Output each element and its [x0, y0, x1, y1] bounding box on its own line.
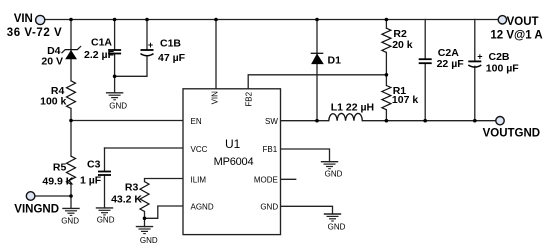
node R3 ground — [143, 217, 147, 221]
IC U1 MP6004 — [183, 89, 281, 235]
svg-text:20 k: 20 k — [392, 39, 413, 51]
svg-text:100 µF: 100 µF — [486, 62, 519, 74]
resistor R1 — [382, 85, 418, 110]
svg-text:R3: R3 — [125, 181, 139, 193]
wire VCC pin to C3 — [105, 147, 184, 149]
capacitor C3 — [80, 159, 111, 187]
svg-text:GND: GND — [97, 216, 115, 225]
wire top rail VIN to VOUT — [45, 19, 499, 21]
wire VINGND terminal to node — [35, 195, 71, 197]
node C2A bottom — [423, 119, 427, 123]
svg-text:EN: EN — [191, 117, 202, 126]
svg-text:36 V-72 V: 36 V-72 V — [7, 27, 62, 39]
node VINGND junction — [69, 194, 73, 198]
node C1A bottom — [113, 75, 117, 79]
terminal VOUTGND — [496, 117, 504, 125]
svg-text:+: + — [477, 52, 482, 62]
svg-text:GND: GND — [140, 236, 158, 245]
node VIN pin rail — [214, 18, 218, 22]
svg-text:+: + — [148, 40, 153, 50]
wire C1A top — [114, 20, 116, 51]
svg-text:MP6004: MP6004 — [214, 156, 254, 168]
svg-text:20 V: 20 V — [41, 56, 63, 68]
node C1B rail — [145, 18, 149, 22]
svg-text:C1B: C1B — [160, 37, 181, 49]
wire AGND pin step to R3 ground node — [145, 206, 184, 218]
wire C3 top — [104, 148, 106, 172]
wire C1A node to C1B bottom — [115, 56, 147, 76]
svg-text:GND: GND — [325, 169, 343, 178]
wire L1 to VOUTGND terminal — [362, 120, 496, 122]
svg-text:GND: GND — [260, 203, 278, 212]
wire C1A bottom to ground node — [114, 54, 116, 77]
diode D1 — [311, 53, 341, 66]
svg-text:U1: U1 — [225, 137, 241, 151]
svg-text:L1 22 µH: L1 22 µH — [331, 102, 374, 114]
wire R5 bottom to VINGND node — [70, 184, 72, 196]
terminal VOUT — [498, 16, 506, 24]
node D4 rail — [69, 18, 73, 22]
ground under C3 — [96, 208, 113, 215]
svg-text:FB1: FB1 — [263, 145, 278, 154]
svg-text:ILIM: ILIM — [191, 175, 207, 184]
wire FB1 pin to ground — [281, 149, 330, 162]
svg-text:VINGND: VINGND — [14, 204, 59, 216]
wire C2B top — [474, 20, 476, 62]
ground under R5 — [62, 208, 79, 215]
terminal VINGND — [26, 192, 35, 201]
wire R3 bottom to ground node — [144, 212, 146, 219]
node D1 rail — [315, 18, 319, 22]
wire SW pin to L1 — [281, 120, 329, 122]
node R1 bottom — [385, 119, 389, 123]
resistor R2 — [382, 28, 413, 52]
svg-text:12 V@1 A: 12 V@1 A — [490, 29, 542, 41]
wire R1 bottom to SW rail — [385, 110, 387, 121]
svg-text:SW: SW — [265, 117, 278, 126]
capacitor C1B electrolytic — [141, 37, 186, 64]
node R2 R1 FB2 — [385, 73, 389, 77]
svg-text:49.9 K: 49.9 K — [42, 176, 73, 188]
wire C2A top — [424, 20, 426, 60]
wire R2 top to rail — [385, 20, 387, 29]
node EN junction — [69, 119, 73, 123]
svg-text:C1A: C1A — [91, 36, 112, 48]
wire left vertical rail to R4 top — [70, 20, 72, 81]
svg-text:VIN: VIN — [211, 91, 220, 105]
svg-text:MODE: MODE — [254, 175, 278, 184]
wire MODE stub — [281, 178, 296, 180]
wire ILIM pin to R3 top — [145, 179, 184, 182]
wire ground stem under R5 — [70, 196, 72, 208]
wire C1B top to rail — [146, 20, 148, 51]
node C2B bottom — [473, 119, 477, 123]
wire C2B bottom — [474, 66, 476, 120]
capacitor C2B electrolytic — [468, 51, 519, 74]
ground under FB1 — [321, 162, 338, 169]
capacitor C2A — [419, 47, 465, 70]
svg-text:FB2: FB2 — [245, 91, 254, 106]
wire ground stem under R3 — [144, 218, 146, 226]
junction node dots — [69, 18, 476, 220]
node C1A rail — [113, 18, 117, 22]
svg-text:AGND: AGND — [191, 203, 214, 212]
zener diode D4 — [41, 45, 81, 67]
svg-text:2.2 µF: 2.2 µF — [84, 49, 115, 61]
svg-text:VIN: VIN — [14, 13, 33, 25]
terminal VIN — [36, 15, 45, 24]
svg-text:C2B: C2B — [489, 51, 510, 63]
svg-text:VOUT: VOUT — [507, 16, 539, 28]
svg-text:22 µF: 22 µF — [437, 58, 465, 70]
ground under GND pin — [324, 214, 341, 221]
node R2 rail — [385, 18, 389, 22]
svg-text:GND: GND — [328, 223, 346, 232]
ground under R3 — [136, 227, 153, 234]
capacitor C1A — [84, 36, 121, 61]
wire C3 bottom to ground — [104, 175, 106, 208]
svg-text:D1: D1 — [328, 54, 342, 66]
wire R4 bottom to R5 top — [70, 109, 72, 157]
svg-text:GND: GND — [61, 216, 79, 225]
svg-text:100 k: 100 k — [40, 95, 66, 107]
resistor R3 — [111, 181, 149, 211]
svg-text:GND: GND — [109, 102, 127, 111]
wire ground stem under C1A — [114, 76, 116, 93]
wire D1 vertical — [316, 20, 318, 121]
resistor R4 — [40, 81, 75, 109]
svg-text:1 µF: 1 µF — [80, 175, 102, 187]
inductor L1 — [329, 102, 374, 121]
svg-text:43.2 K: 43.2 K — [111, 193, 142, 205]
svg-text:107 k: 107 k — [392, 94, 418, 106]
svg-text:VOUTGND: VOUTGND — [483, 127, 540, 139]
wire VIN pin stub — [215, 20, 217, 89]
wire FB2 stub to R2/R1 node — [248, 75, 386, 89]
wire GND pin to ground — [281, 206, 333, 214]
svg-text:47 µF: 47 µF — [158, 52, 186, 64]
ground under C1A — [106, 93, 123, 100]
svg-text:R5: R5 — [53, 162, 67, 174]
node D1 SW rail — [315, 119, 319, 123]
svg-text:VCC: VCC — [191, 145, 208, 154]
wire C2A bottom — [424, 63, 426, 120]
wire R2 bottom to R1 top — [385, 52, 387, 85]
resistor R5 — [42, 156, 75, 187]
wire EN pin to R4/R5 node — [71, 120, 183, 122]
svg-text:C3: C3 — [87, 159, 101, 171]
